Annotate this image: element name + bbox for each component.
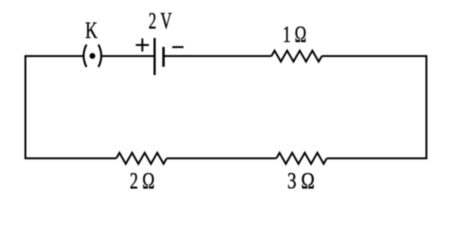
svg-text:3 Ω: 3 Ω [287, 169, 314, 195]
svg-text:1 Ω: 1 Ω [283, 22, 307, 48]
svg-text:2 V: 2 V [149, 9, 172, 35]
svg-text:K: K [85, 18, 97, 44]
svg-text:2 Ω: 2 Ω [130, 169, 155, 195]
